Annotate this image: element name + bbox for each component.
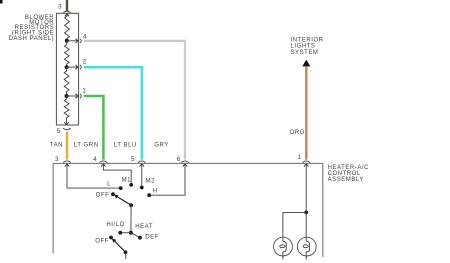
fan switch contact M1 (129, 183, 133, 187)
svg-text:OFF: OFF (96, 193, 110, 199)
mode contact OFF (109, 236, 113, 240)
node: lamp junction (304, 211, 308, 215)
arrow into heater pin 3 (65, 164, 69, 167)
svg-text:DEF: DEF (145, 234, 159, 240)
label: heater-a/c control assembly (328, 165, 370, 183)
svg-text:OFF: OFF (95, 239, 109, 245)
resistor R4 (64, 96, 69, 124)
svg-text:6: 6 (177, 156, 181, 163)
label: interior lights system (291, 37, 324, 56)
wire LT BLU pin2 to pin5 (84, 67, 142, 159)
svg-text:GRY: GRY (154, 142, 169, 148)
svg-text:5: 5 (57, 128, 61, 135)
connector at resistor pin 5 (63, 128, 71, 130)
resistor R3 (64, 67, 69, 96)
lamp 1 (274, 237, 293, 259)
wire: junction to left lamp (283, 212, 306, 241)
resistor R2 (64, 41, 69, 67)
svg-text:4: 4 (93, 156, 97, 163)
svg-text:4: 4 (83, 34, 87, 41)
wire GRY pin4 to pin6 (84, 41, 185, 160)
svg-text:HI/LO: HI/LO (106, 222, 124, 228)
fan switch contact L (119, 186, 123, 190)
connector at heater pin 1 (302, 161, 310, 163)
mode contact DEF (138, 236, 142, 240)
svg-text:LIGHTS: LIGHTS (291, 44, 316, 50)
resistor R1 (65, 14, 70, 41)
svg-text:LT GRN: LT GRN (74, 142, 99, 148)
arrow into heater pin 6 (183, 164, 187, 167)
fan switch contact H (147, 193, 151, 197)
connector at pin 4 (80, 39, 81, 43)
fan switch contact OFF (111, 192, 115, 196)
svg-text:3: 3 (58, 3, 62, 10)
svg-text:M2: M2 (146, 179, 156, 185)
arrow to interior lights (302, 60, 310, 67)
svg-text:HEAT: HEAT (135, 224, 153, 230)
svg-text:H: H (153, 188, 158, 194)
wire TAN pin5 to pin3 (66, 132, 69, 160)
connector at heater pin 4 (100, 161, 108, 163)
wire: pin 5 to M2 contact (141, 164, 143, 188)
wire: stub below mode pivot (125, 252, 127, 259)
arrow at pin 2 (75, 65, 78, 69)
svg-text:3: 3 (55, 156, 59, 163)
heater-a/c control assembly box (53, 163, 323, 257)
connector at resistor pin 3 (63, 11, 71, 13)
blower motor resistors box (56, 13, 78, 125)
wire: junction to right lamp (305, 212, 307, 241)
arrow down at resistor pin 5 (64, 122, 68, 125)
connector at heater pin 6 (181, 161, 189, 163)
arrow at pin 4 (75, 39, 78, 43)
corner mark (0, 0, 3, 4)
mode contact HI/LO (118, 231, 122, 235)
arrow into resistor box pin 3 (65, 14, 69, 17)
connector at heater pin 5 (138, 161, 146, 163)
wire: pin 3 to L contact (67, 164, 121, 188)
fan switch lever (117, 197, 131, 206)
svg-text:ORG: ORG (290, 130, 305, 136)
svg-text:L: L (107, 182, 111, 188)
svg-text:M1: M1 (122, 177, 132, 183)
svg-text:LT BLU: LT BLU (114, 142, 137, 148)
connector at pin 1 (80, 94, 81, 98)
svg-text:DASH PANEL): DASH PANEL) (9, 36, 55, 42)
arrow into heater pin 4 (101, 164, 105, 167)
wire ORG (305, 66, 307, 159)
node: tap to pin 1 (65, 94, 69, 98)
arrow into heater pin 5 (140, 164, 144, 167)
wire: tap 2 to box edge (67, 66, 78, 68)
node: tap to pin 2 (65, 65, 69, 69)
wire: pin 4 to M1 contact (103, 164, 131, 185)
wire: fan pivot to mode junction (130, 205, 132, 233)
wire: tap 4 to box edge (67, 40, 78, 42)
lamp 2 (297, 237, 316, 259)
wire: pin 1 down to lamp junction (305, 164, 307, 213)
svg-text:1: 1 (82, 88, 86, 95)
wire: junction to DEF contact (131, 233, 140, 238)
wire: junction to HI/LO contact (120, 232, 131, 234)
connector at pin 2 (80, 65, 81, 69)
node: tap to pin 4 (65, 39, 69, 43)
wire: dark feed into resistor pin 3 (66, 0, 68, 11)
wire LT GRN pin1 to pin4 (84, 96, 104, 160)
svg-text:SYSTEM: SYSTEM (291, 50, 319, 56)
svg-text:5: 5 (131, 156, 135, 163)
mode switch junction (HEAT) (129, 231, 133, 235)
svg-text:TAN: TAN (50, 142, 63, 148)
svg-text:2: 2 (83, 59, 87, 66)
connector at heater pin 3 (63, 161, 71, 163)
svg-text:INTERIOR: INTERIOR (291, 37, 324, 43)
wire: tap 1 to box edge (67, 95, 78, 97)
arrow at pin 1 (75, 94, 78, 98)
fan switch pivot (129, 203, 133, 207)
fan switch contact M2 (140, 186, 144, 190)
svg-text:ASSEMBLY: ASSEMBLY (328, 177, 364, 183)
mode switch pivot (124, 250, 128, 254)
label: blower motor resistors (9, 15, 55, 42)
arrow into heater pin 1 (304, 164, 308, 167)
mode switch lever (115, 241, 126, 252)
svg-text:1: 1 (297, 154, 301, 161)
wire: pin 6 to H contact (149, 164, 185, 195)
